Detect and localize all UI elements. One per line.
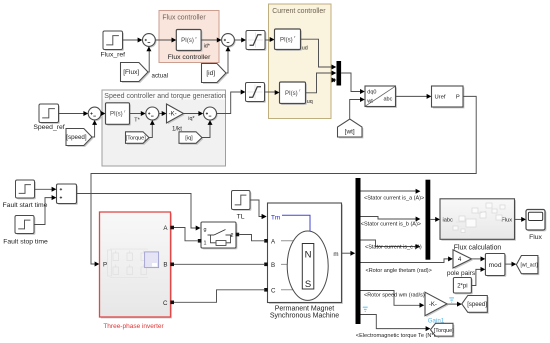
Goto tag [speed] bbox=[462, 296, 489, 314]
wire rotor speed wm, label bbox=[361, 291, 425, 308]
svg-text:<Stator current is_b (A)>: <Stator current is_b (A)> bbox=[361, 221, 421, 227]
svg-text:P: P bbox=[456, 95, 460, 101]
wire mux1 to dq0-abc transform bbox=[341, 73, 365, 94]
sum junction sum5 (iq error) bbox=[204, 107, 218, 121]
svg-text:Tm: Tm bbox=[271, 214, 280, 221]
svg-text:actual: actual bbox=[152, 73, 169, 80]
wire TL to machine Tm bbox=[250, 200, 266, 219]
subsystem Permanent Magnet Synchronous Machine bbox=[262, 203, 343, 304]
wire gain to [speed] goto bbox=[447, 302, 462, 307]
svg-text:id*: id* bbox=[204, 43, 211, 49]
svg-text:<Stator current is_c (A): <Stator current is_c (A) bbox=[365, 244, 422, 250]
From tag [id] bbox=[202, 64, 228, 84]
svg-text:S: S bbox=[305, 279, 311, 290]
svg-text:Flux controller: Flux controller bbox=[162, 14, 206, 21]
wire stator current is_a, label bbox=[361, 189, 425, 202]
svg-text:-K-: -K- bbox=[429, 302, 437, 308]
PID block current controller q-axis PI(s) bbox=[280, 82, 313, 105]
label Flux calculation bbox=[454, 245, 502, 252]
svg-text:[wt_act]: [wt_act] bbox=[521, 263, 539, 269]
wire ud to mux1 bbox=[301, 39, 337, 69]
svg-text:[speed]: [speed] bbox=[467, 302, 487, 308]
sum junction sum2 (id error) bbox=[222, 34, 236, 48]
area: Current controller region bbox=[269, 4, 332, 119]
step source Speed_ref bbox=[33, 104, 64, 131]
From tag [speed] bbox=[66, 129, 93, 147]
breaker block (fault switch) bbox=[198, 222, 239, 249]
svg-text:dq0: dq0 bbox=[367, 90, 376, 96]
From tag [Flux] bbox=[121, 63, 150, 83]
svg-text:P: P bbox=[103, 261, 107, 268]
constant 2*pi bbox=[453, 278, 472, 295]
wire machine m to bus selector bbox=[342, 251, 356, 256]
svg-text:Flux controller: Flux controller bbox=[168, 54, 211, 61]
svg-text:T*: T* bbox=[134, 117, 140, 123]
label Three-phase inverter bbox=[103, 323, 164, 330]
svg-text:[speed]: [speed] bbox=[66, 134, 87, 141]
svg-text:-K-: -K- bbox=[169, 112, 177, 118]
sum junction sum1 (flux error) bbox=[143, 34, 157, 48]
svg-text:Flux: Flux bbox=[501, 218, 512, 224]
svg-text:PI(s): PI(s) bbox=[280, 37, 293, 43]
wire flux PI to sum2, label id* bbox=[201, 38, 222, 50]
signal logging badge on torque wire bbox=[363, 307, 368, 311]
step source Fault stop time bbox=[3, 216, 48, 246]
svg-text:Current controller: Current controller bbox=[272, 8, 326, 15]
svg-text:1: 1 bbox=[204, 241, 207, 247]
svg-text:C: C bbox=[271, 288, 276, 295]
svg-text:ud: ud bbox=[302, 46, 308, 52]
svg-text:Uref: Uref bbox=[435, 95, 446, 101]
svg-text:B: B bbox=[163, 262, 167, 269]
wire mod to [wt_act] bbox=[505, 262, 516, 267]
wire [id] to sum2 bbox=[226, 46, 231, 73]
step source Flux_ref bbox=[101, 31, 126, 58]
svg-text:Synchronous Machine: Synchronous Machine bbox=[270, 313, 339, 320]
svg-text:[wt]: [wt] bbox=[345, 129, 355, 136]
wire saturation2 to current PI q bbox=[265, 90, 280, 95]
svg-text:Flux_ref: Flux_ref bbox=[101, 51, 126, 58]
wire electromagnetic torque, label bbox=[356, 315, 444, 339]
wire Speed_ref to sum3 bbox=[59, 111, 89, 116]
svg-text:mod: mod bbox=[489, 262, 502, 269]
Goto tag [wt_act] bbox=[516, 256, 539, 276]
sum block (fault start + stop) bbox=[57, 184, 78, 205]
wire Flux_ref to sum1 bbox=[123, 38, 143, 43]
saturation block 1 bbox=[246, 31, 266, 51]
transform block dq0 to abc bbox=[365, 86, 397, 108]
svg-text:[Torque]: [Torque] bbox=[126, 136, 147, 142]
svg-text:N: N bbox=[305, 250, 312, 261]
wire inverter B to machine B bbox=[174, 263, 264, 265]
svg-text:iabc: iabc bbox=[443, 218, 453, 224]
gain block -K- (Gain1) bbox=[425, 292, 448, 317]
svg-text:Flux calculation: Flux calculation bbox=[454, 245, 502, 252]
wire stator current is_b, label bbox=[361, 217, 422, 228]
svg-text:g: g bbox=[204, 227, 207, 233]
wire rotor angle thetam, label bbox=[361, 256, 453, 273]
PID block speed controller PI(s) bbox=[106, 103, 131, 126]
sum junction sum3 (speed error) bbox=[88, 107, 102, 121]
math function block mod bbox=[485, 254, 506, 277]
svg-text:Three-phase inverter: Three-phase inverter bbox=[103, 323, 164, 330]
svg-text:Permanent Magnet: Permanent Magnet bbox=[275, 306, 335, 313]
svg-text:4: 4 bbox=[458, 256, 462, 263]
wire inverter A to breaker input 1 bbox=[174, 228, 198, 241]
wire sum1 to flux PI bbox=[155, 38, 176, 43]
svg-text:pole pairs: pole pairs bbox=[447, 270, 476, 277]
svg-text:<Stator current is_a (A)>: <Stator current is_a (A)> bbox=[364, 195, 424, 201]
svg-text:wt: wt bbox=[366, 98, 373, 104]
svg-text:Speed_ref: Speed_ref bbox=[33, 124, 64, 131]
svg-text:m: m bbox=[333, 251, 338, 258]
svg-text:TL: TL bbox=[237, 213, 245, 220]
scope Flux bbox=[526, 210, 546, 232]
svg-text:C: C bbox=[163, 300, 168, 307]
svg-text:<Electromagnetic torque Te (N*: <Electromagnetic torque Te (N*m)> bbox=[356, 333, 444, 339]
From tag [wt] bbox=[338, 119, 364, 138]
svg-text:1/kt: 1/kt bbox=[172, 125, 182, 132]
wire mux2 to Flux calculation bbox=[430, 217, 440, 222]
svg-text:PI(s): PI(s) bbox=[181, 38, 194, 44]
wire dq0-abc to Uref block bbox=[396, 94, 432, 99]
wire gain to sum5, label iq* bbox=[184, 111, 204, 122]
svg-text:[id]: [id] bbox=[206, 70, 215, 77]
wire [wt] to transform wt input bbox=[350, 97, 365, 119]
wire sum3 to speed PI bbox=[101, 111, 106, 116]
wire Flux calculation to scope bbox=[515, 217, 527, 222]
signal logging badge on gain output bbox=[449, 298, 454, 302]
subsystem Flux calculation bbox=[440, 199, 516, 241]
wire sum4 to gain 1/kt bbox=[159, 111, 167, 116]
area: Flux controller region bbox=[159, 11, 219, 63]
PWM generator block Uref P bbox=[432, 86, 465, 108]
wire fault start to sum6 bbox=[35, 187, 57, 192]
svg-text:Fault stop time: Fault stop time bbox=[3, 238, 48, 245]
svg-text:abc: abc bbox=[384, 96, 393, 102]
PID block current controller d-axis PI(s) bbox=[275, 29, 308, 52]
label Gain1 bbox=[428, 317, 445, 324]
svg-text:PI(s): PI(s) bbox=[110, 112, 123, 118]
wire stator current is_c, label bbox=[361, 240, 422, 250]
label Flux (scope) bbox=[529, 234, 542, 241]
wire Uref P to inverter P input (long feedback path) bbox=[91, 96, 476, 266]
wire breaker output 2 to machine A bbox=[239, 235, 264, 241]
wire speed PI to sum4, label T* bbox=[130, 111, 146, 123]
svg-text:uq: uq bbox=[307, 99, 313, 105]
subsystem Three-phase inverter bbox=[100, 212, 175, 318]
wire [Torque] to sum4 bbox=[149, 120, 155, 137]
wire sum2 to saturation1 bbox=[234, 38, 246, 43]
wire 2*pi to mod bbox=[471, 267, 485, 286]
mux2 bar (stator currents) bbox=[426, 180, 431, 260]
Goto tag [Torque] bbox=[431, 323, 455, 337]
svg-text:Flux: Flux bbox=[529, 234, 542, 241]
svg-text:<Rotor angle thetam (rad)>: <Rotor angle thetam (rad)> bbox=[366, 268, 432, 274]
area: Speed controller and torque generation region bbox=[102, 90, 226, 166]
svg-text:[Flux]: [Flux] bbox=[123, 69, 139, 76]
step source Fault start time bbox=[3, 180, 48, 209]
gain block -K- (1/kt) bbox=[167, 104, 185, 132]
svg-text:Speed controller and torque ge: Speed controller and torque generation bbox=[104, 93, 226, 100]
svg-text:iq*: iq* bbox=[188, 116, 195, 122]
svg-text:[iq]: [iq] bbox=[185, 136, 193, 142]
wire saturation1 to current PI d bbox=[265, 37, 275, 42]
svg-text:B: B bbox=[271, 262, 275, 269]
From tag [Torque] bbox=[126, 132, 151, 145]
wire [iq] to sum5 bbox=[202, 120, 213, 137]
label Permanent Magnet Synchronous Machine bbox=[270, 306, 339, 320]
svg-text:2: 2 bbox=[231, 233, 234, 239]
saturation block 2 bbox=[246, 83, 266, 103]
wire sum6 to breaker gate g bbox=[77, 194, 201, 231]
bus selector bar bbox=[356, 178, 361, 324]
wire uq to mux1 bbox=[306, 71, 337, 93]
wire gain 4 to mod bbox=[472, 256, 486, 261]
step source TL bbox=[232, 191, 252, 221]
mux1 (dq0 combine) bbox=[332, 61, 342, 86]
svg-text:Fault start time: Fault start time bbox=[3, 202, 48, 209]
svg-text:PI(s): PI(s) bbox=[285, 91, 298, 97]
From tag [iq] bbox=[179, 132, 203, 145]
sum junction sum4 (torque error) bbox=[146, 107, 160, 121]
wire sum5 to saturation2 bbox=[217, 90, 246, 114]
svg-text:2*pi: 2*pi bbox=[457, 284, 467, 290]
wire inverter C to machine C bbox=[174, 290, 264, 303]
PID block Flux controller PI(s) bbox=[168, 30, 211, 62]
wire [Flux] to sum1, label actual bbox=[146, 46, 168, 79]
wire [speed] to sum3 bbox=[92, 120, 97, 137]
wire fault stop to sum6 bbox=[34, 195, 56, 224]
svg-text:<Rotor speed wm (rad/s): <Rotor speed wm (rad/s) bbox=[364, 293, 425, 299]
gain block 4 (pole pairs) bbox=[447, 250, 476, 277]
svg-text:[Torque]: [Torque] bbox=[434, 328, 455, 334]
